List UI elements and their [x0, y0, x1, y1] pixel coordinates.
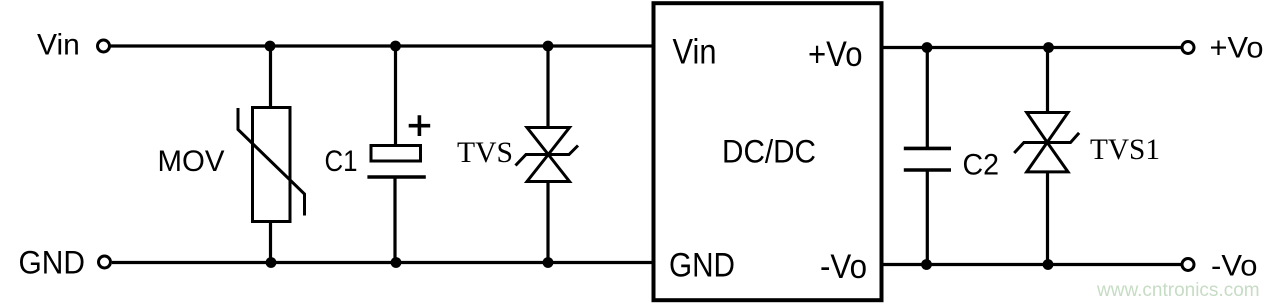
wire MOV bottom lead	[269, 221, 272, 263]
diode TVS zener bar with bent ends	[516, 146, 579, 166]
wire C1 bottom lead	[393, 179, 396, 263]
svg-text:TVS: TVS	[457, 136, 513, 169]
wire MOV top lead	[269, 46, 272, 108]
node TVS-top	[543, 41, 554, 52]
svg-text:MOV: MOV	[158, 145, 225, 178]
wire C2 top lead	[926, 48, 929, 148]
wire TVS top lead	[546, 46, 549, 129]
svg-text:TVS1: TVS1	[1090, 133, 1160, 166]
node C1-top	[390, 41, 401, 52]
svg-text:GND: GND	[19, 245, 86, 281]
node TVS1-top	[1043, 42, 1054, 53]
terminal -Vo	[1182, 259, 1194, 271]
svg-text:Vin: Vin	[37, 29, 80, 62]
node MOV-bottom	[266, 257, 277, 268]
svg-text:Vin: Vin	[673, 33, 717, 72]
svg-text:-Vo: -Vo	[1211, 250, 1258, 283]
svg-text:DC/DC: DC/DC	[722, 134, 816, 170]
node C1-bottom	[391, 257, 402, 268]
diode TVS1 upper triangle	[1027, 113, 1068, 143]
capacitor C1 polarity plus	[409, 115, 431, 136]
diode TVS lower triangle	[527, 155, 570, 182]
capacitor C2 top plate	[904, 147, 951, 151]
svg-text:C2: C2	[963, 149, 1000, 182]
svg-text:+Vo: +Vo	[1210, 32, 1264, 65]
wire C1 top lead	[394, 46, 397, 146]
svg-text:-Vo: -Vo	[820, 248, 867, 286]
diode TVS upper triangle	[527, 128, 570, 155]
capacitor C2 bottom plate	[904, 168, 951, 172]
varistor MOV body	[253, 108, 291, 222]
converter U1 DC/DC box	[654, 3, 882, 300]
wire TVS1 bottom lead	[1046, 171, 1049, 265]
wire bottom-right rail	[884, 263, 1182, 266]
capacitor C1 positive plate	[371, 146, 421, 162]
svg-text:+Vo: +Vo	[808, 35, 863, 74]
node TVS-bottom	[543, 257, 554, 268]
node TVS1-bottom	[1043, 259, 1054, 270]
wire TVS bottom lead	[546, 180, 549, 263]
node C2-bottom	[921, 259, 932, 270]
svg-text:www.cntronics.com: www.cntronics.com	[1096, 280, 1260, 301]
node C2-top	[922, 42, 933, 53]
wire top-right rail	[884, 46, 1182, 49]
terminal GND	[99, 256, 111, 268]
svg-text:GND: GND	[669, 247, 735, 285]
node MOV-top	[265, 41, 276, 52]
wire bottom-left rail	[112, 261, 653, 264]
wire top-left rail	[111, 44, 654, 47]
diode TVS1 lower triangle	[1027, 142, 1068, 172]
terminal Vin	[98, 40, 110, 52]
diode TVS1 zener bar with bent ends	[1014, 133, 1079, 153]
svg-text:C1: C1	[325, 145, 358, 178]
capacitor C1 negative plate	[367, 175, 425, 179]
wire TVS1 top lead	[1046, 48, 1049, 115]
wire C2 bottom lead	[926, 171, 929, 265]
terminal +Vo	[1182, 42, 1194, 54]
varistor MOV diagonal stroke	[238, 108, 305, 216]
